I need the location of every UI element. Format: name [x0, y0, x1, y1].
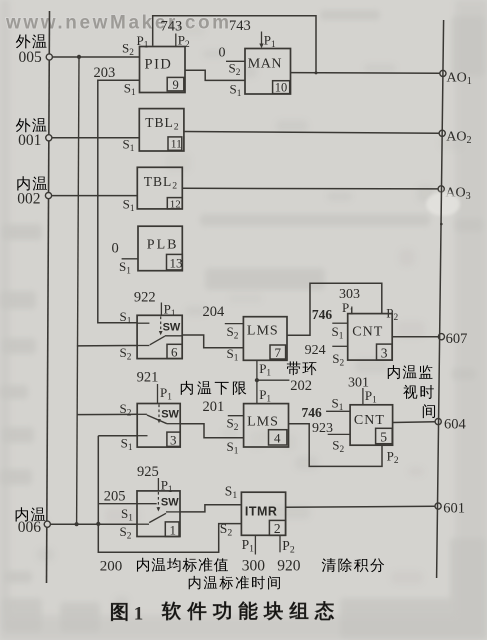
annotation 带环 — [287, 361, 301, 375]
svg-text:006: 006 — [18, 519, 42, 536]
pin S1 stub of CNT3 — [332, 322, 347, 324]
pin S2 stub of LMS4 — [228, 415, 244, 417]
terminal AO1 — [440, 70, 446, 76]
svg-text:300: 300 — [242, 558, 265, 575]
svg-text:13: 13 — [170, 256, 183, 271]
pin S2 stub (inverted) of MAN — [226, 60, 245, 62]
small mark on bus — [440, 223, 443, 226]
number box 11 — [168, 137, 182, 150]
wire branch 005 bus down — [77, 57, 79, 524]
svg-text:002: 002 — [17, 190, 40, 207]
wire CNT5 out to 604 — [393, 421, 436, 424]
pin P1 arrow stub of MAN — [261, 32, 263, 45]
pin S2 stub of CNT5 — [328, 433, 350, 435]
annotation 内温下限 — [181, 381, 193, 395]
wire CNT3 out to 607 — [392, 336, 438, 338]
svg-text:2: 2 — [274, 521, 281, 536]
terminal 005 — [46, 54, 52, 60]
annotation 内温监视时间 — [388, 365, 400, 379]
dashed actuator line SW6 — [160, 317, 162, 333]
svg-text:604: 604 — [444, 417, 467, 433]
svg-text:200: 200 — [100, 558, 123, 574]
pin P1 stub of CNT3 — [351, 307, 353, 314]
junction on AO1 line — [315, 71, 318, 74]
wire 203 vertical — [98, 80, 140, 323]
pin S2 stub of CNT3 — [332, 345, 347, 347]
svg-text:12: 12 — [170, 198, 181, 210]
junction on 006 line — [96, 522, 100, 526]
svg-text:9: 9 — [173, 78, 179, 92]
number box 13 — [167, 254, 183, 270]
junction — [77, 55, 81, 59]
svg-text:922: 922 — [134, 289, 156, 305]
svg-text:005: 005 — [19, 49, 43, 66]
svg-text:CNT: CNT — [354, 413, 385, 428]
node 外温 001 label — [16, 118, 31, 132]
wire to SW3 S2 — [77, 413, 137, 415]
number box 5 — [376, 428, 393, 443]
svg-text:LMS: LMS — [247, 415, 279, 430]
svg-text:746: 746 — [312, 307, 333, 322]
op block SW (3) — [137, 404, 180, 448]
annotation 内温标准时间 — [189, 576, 201, 590]
wire 743 feedback MAN output to PID P1 — [153, 16, 316, 73]
svg-text:204: 204 — [203, 304, 226, 320]
svg-text:746: 746 — [302, 405, 323, 420]
svg-text:LMS: LMS — [247, 323, 279, 338]
svg-text:PID: PID — [145, 56, 173, 72]
wire PID out to MAN S1 — [185, 70, 245, 80]
op block TBL2 (12) — [137, 167, 182, 209]
svg-text:0: 0 — [219, 46, 226, 61]
pin P2 stub of PID — [175, 34, 177, 47]
svg-text:SW: SW — [161, 497, 179, 509]
svg-text:201: 201 — [203, 399, 225, 415]
svg-text:923: 923 — [312, 421, 333, 436]
wire MAN out to AO1 — [291, 72, 440, 75]
right output bus — [437, 20, 444, 578]
op block CNT (5) — [350, 405, 393, 445]
pin P1 stub of CNT5 — [362, 388, 364, 405]
op block PLB (13) — [138, 226, 182, 271]
wire to SW6 S2 — [77, 345, 137, 347]
wire 001 to TBL11 S1 — [52, 137, 139, 139]
terminal 002 — [45, 193, 51, 199]
left input bus — [47, 11, 50, 583]
number box 12 — [167, 198, 182, 209]
svg-text:7: 7 — [275, 345, 282, 360]
wire LMS7 out to CNT3 P2 — [287, 283, 382, 335]
pin P1 stub of ITMR — [254, 535, 256, 554]
dashed actuator line SW1 — [157, 492, 159, 509]
wire 205 to SW1 S1 — [98, 503, 137, 505]
svg-text:001: 001 — [18, 132, 41, 149]
number box 9 — [167, 77, 184, 91]
svg-text:0: 0 — [112, 240, 119, 256]
svg-text:10: 10 — [275, 81, 288, 95]
svg-text:924: 924 — [305, 343, 326, 358]
svg-text:1: 1 — [134, 604, 144, 625]
pin P1 stub of SW1 — [157, 478, 159, 491]
terminal AO2 — [439, 130, 445, 136]
wire LMS4 out to CNT5 P2 — [289, 424, 383, 467]
stub 202 — [257, 379, 290, 381]
caption 图1 软件功能块组态 — [111, 603, 127, 620]
svg-text:5: 5 — [380, 430, 387, 445]
number box 2 — [269, 520, 285, 535]
svg-text:1: 1 — [170, 522, 177, 537]
junction on 006 line — [75, 522, 79, 526]
pin S2 stub of LMS7 — [225, 323, 244, 325]
wire ITMR out to 601 — [286, 506, 436, 507]
number box 1 — [165, 522, 179, 537]
number box 3 — [377, 344, 393, 360]
svg-text:ITMR: ITMR — [245, 504, 278, 518]
number box 6 — [167, 344, 182, 358]
svg-text:203: 203 — [94, 65, 116, 81]
annotation 内温均标准值 — [137, 558, 149, 572]
svg-text:SW: SW — [161, 409, 179, 421]
node 内温 002 label — [17, 176, 29, 190]
svg-text:PLB: PLB — [147, 237, 179, 252]
svg-text:CNT: CNT — [352, 324, 383, 339]
op block SW (1) — [137, 491, 180, 537]
node 外温 005 label — [16, 34, 31, 48]
number box 10 — [273, 81, 290, 94]
op block LMS (4) — [244, 404, 289, 447]
switch contacts SW3 — [137, 413, 147, 415]
svg-text:607: 607 — [446, 331, 468, 347]
svg-text:6: 6 — [171, 345, 178, 360]
svg-text:920: 920 — [277, 558, 301, 575]
switch contacts SW1 — [137, 503, 157, 505]
terminal 607 — [438, 334, 444, 340]
terminal 601 — [435, 503, 441, 509]
pin P1 stub of SW6 — [160, 303, 162, 316]
op block CNT (3) — [348, 314, 393, 361]
svg-text:921: 921 — [137, 369, 159, 385]
terminal 604 — [435, 419, 441, 425]
svg-text:4: 4 — [274, 431, 281, 446]
dashed actuator line SW3 — [158, 405, 160, 421]
svg-text:3: 3 — [170, 433, 177, 448]
wire SW3 out to LMS4 S1 — [180, 424, 243, 438]
pin S1 stub (inverted) of PLB — [122, 258, 138, 260]
terminal 001 — [46, 135, 52, 141]
svg-text:205: 205 — [104, 488, 126, 504]
svg-text:202: 202 — [290, 378, 312, 394]
pin P2 stub of ITMR — [279, 535, 281, 552]
pin P1 stub of SW3 — [157, 384, 159, 404]
terminal AO3 — [438, 186, 444, 192]
wire SW6 out to LMS7 S1 — [182, 335, 243, 348]
op block PID (9) — [140, 47, 186, 93]
op block MAN (10) — [245, 49, 291, 95]
wire 005 to PID S2 — [53, 56, 140, 58]
svg-text:601: 601 — [443, 500, 465, 516]
wire P1 to LMS4 P1 — [256, 380, 258, 403]
op block ITMR (2) — [241, 492, 285, 535]
node 内温 006 label — [16, 507, 28, 521]
op block LMS (7) — [243, 317, 287, 361]
wire TBL12 out to AO3 — [182, 187, 438, 190]
svg-text:3: 3 — [381, 346, 388, 361]
wire SW1 out to ITMR S1 — [180, 505, 241, 512]
svg-text:MAN: MAN — [248, 57, 282, 72]
svg-text:11: 11 — [171, 139, 182, 151]
annotation 清除积分 — [322, 558, 336, 572]
wire 002 to TBL12 S1 — [52, 195, 138, 197]
wire 006 to SW1 S2 — [50, 523, 137, 525]
svg-text:743: 743 — [229, 18, 251, 34]
junction 202 — [255, 378, 259, 382]
wire 200 net — [98, 435, 137, 437]
svg-text:SW: SW — [163, 322, 181, 334]
pin S1 stub of CNT5 — [326, 410, 350, 412]
op block TBL2 (11) — [139, 109, 184, 151]
terminal 006 — [44, 521, 50, 527]
pin P1 stub of LMS7 down — [256, 360, 258, 380]
number box 4 — [269, 430, 287, 445]
wire TBL11 out to AO2 — [184, 132, 439, 134]
number box 7 — [270, 345, 286, 359]
paper light spot — [426, 192, 460, 216]
svg-text:925: 925 — [137, 464, 159, 480]
number box 3 (SW3) — [167, 432, 180, 446]
switch contacts SW6 — [137, 322, 149, 324]
op block SW (6) — [137, 315, 182, 358]
